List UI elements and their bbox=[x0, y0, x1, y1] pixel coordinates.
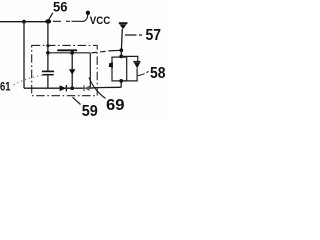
capacitor plate (thick bar above top edge) bbox=[57, 49, 77, 51]
diode on middle vertical (arrow down) bbox=[69, 69, 76, 74]
diode on bottom edge (arrow left, faint) bbox=[83, 85, 85, 91]
node: bottom junction of component 58 bbox=[119, 79, 123, 83]
label 61 leader (dotted) bbox=[14, 75, 44, 85]
label 59 leader bbox=[73, 97, 81, 104]
svg-text:57: 57 bbox=[146, 27, 162, 44]
diode on bottom edge (arrow right) bbox=[60, 85, 67, 91]
wire: inner top edge bbox=[48, 52, 90, 54]
label 58 leader bbox=[138, 71, 149, 75]
svg-text:VCC: VCC bbox=[90, 15, 111, 27]
diode D (right branch of 58) bbox=[121, 56, 138, 61]
node: junction on top rail bbox=[22, 20, 26, 24]
svg-text:56: 56 bbox=[53, 0, 68, 14]
mark on left edge of box 58 bbox=[109, 62, 113, 67]
wire: left outer vertical bbox=[23, 22, 25, 89]
label 57 leader bbox=[125, 34, 142, 36]
svg-text:59: 59 bbox=[82, 103, 98, 120]
power terminal top right bbox=[119, 22, 128, 24]
svg-text:61: 61 bbox=[0, 79, 11, 93]
wire: inner right edge bbox=[89, 53, 91, 88]
wire: inner bottom edge bbox=[24, 87, 90, 89]
wire: left inner vertical upper bbox=[47, 22, 49, 71]
wire: dashed link from box 59 to component 58 bbox=[92, 51, 110, 53]
node: junction 56 bbox=[45, 19, 51, 23]
node: top junction of component 58 bbox=[119, 48, 123, 52]
node: top-left inner junction bbox=[46, 51, 50, 55]
wire: left inner vertical lower bbox=[47, 75, 49, 88]
phantom box 59 (dash-dot) bbox=[32, 45, 98, 95]
node: crossing blob on box top edge bbox=[46, 44, 49, 47]
wire: top rail bbox=[0, 21, 48, 23]
capacitor 61 plates bbox=[42, 70, 54, 72]
node: VCC terminal dot bbox=[86, 11, 90, 15]
node: junction on top edge bbox=[70, 51, 74, 55]
node: junction bbox=[119, 55, 123, 59]
wire: right vertical bbox=[120, 29, 123, 50]
svg-text:69: 69 bbox=[106, 97, 125, 114]
label 69 leader arc bbox=[89, 78, 106, 99]
svg-text:58: 58 bbox=[150, 65, 165, 82]
wire: into component bbox=[120, 50, 122, 56]
node: junction bottom of middle vertical bbox=[70, 86, 74, 90]
wire: middle vertical bbox=[71, 53, 73, 88]
wire: bottom lead of 58 bbox=[91, 81, 122, 88]
component 58 box bbox=[112, 57, 127, 81]
label 56 leader bbox=[48, 13, 53, 20]
wire: dashed to VCC bbox=[53, 20, 84, 22]
